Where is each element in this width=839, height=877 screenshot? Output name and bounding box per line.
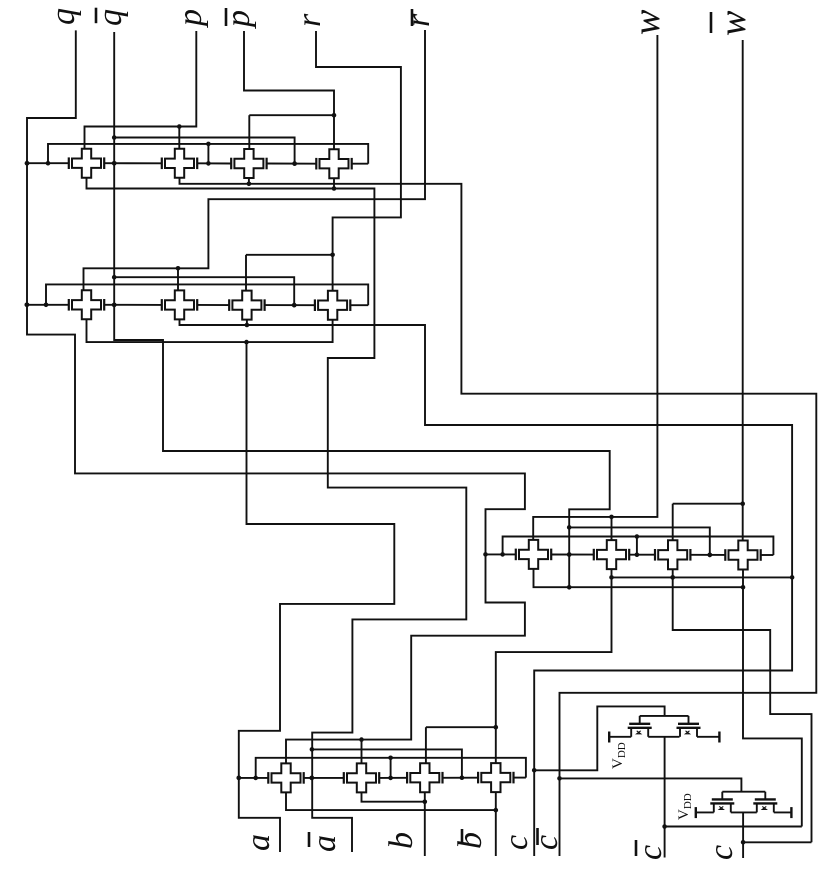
transmission gate D3	[407, 763, 442, 792]
transmission gate C1	[516, 540, 551, 569]
ground bar inverter1	[697, 732, 719, 743]
power VDD bar inverter1	[609, 732, 631, 743]
svg-text:b: b	[452, 832, 489, 849]
label output w	[626, 9, 668, 35]
wire net q	[25, 30, 525, 763]
wire inverter2 input link (c-bar)	[560, 778, 742, 791]
wire rail2 row B	[46, 284, 368, 305]
svg-text:b: b	[383, 832, 420, 849]
transmission gate D1	[268, 763, 303, 792]
svg-text:a: a	[240, 834, 277, 851]
wire net p (rail1 row A)	[85, 31, 197, 149]
transistor Q3 (PMOS inverter2)	[710, 799, 734, 812]
wire D3-D4	[443, 775, 479, 780]
wire A1 left gate lead	[25, 161, 69, 166]
wire inverter1 output (c-bar)	[648, 737, 679, 858]
wire C4 bottom staircase	[743, 570, 802, 827]
wire C1 C4 bottoms rail	[534, 569, 746, 590]
wire inverter1 input link (c)	[534, 706, 664, 770]
label output w-bar	[711, 10, 754, 36]
wire C2 C3 bottoms rail	[612, 569, 793, 580]
transistor Q4 (NMOS inverter2)	[753, 799, 777, 812]
label input p-bar	[220, 8, 257, 29]
wire rail2 row A	[48, 142, 368, 166]
wire a-bar rail row D	[312, 749, 462, 777]
svg-text:q: q	[92, 9, 129, 26]
svg-text:q: q	[45, 8, 82, 25]
label input b	[383, 832, 420, 849]
wire D2-D3	[379, 777, 407, 779]
wire c output rail	[743, 841, 811, 843]
wire net q-bar	[112, 32, 610, 587]
wire A4 right gate lead	[352, 163, 369, 165]
wire net w-bar (C3 C4 tops)	[673, 40, 745, 540]
wire B1 left gate lead	[25, 303, 69, 308]
label input r	[291, 13, 328, 27]
transmission gate C4	[725, 541, 760, 570]
wire q-bar rail row A	[114, 138, 297, 166]
wire B2-B3	[197, 304, 229, 306]
wire q-bar rail row C	[569, 527, 712, 557]
wire net a	[237, 342, 395, 852]
wire rail2 row D	[256, 756, 526, 781]
label input c-bar	[528, 828, 565, 850]
svg-text:c: c	[528, 835, 565, 850]
transmission gate B1	[69, 290, 104, 319]
transmission gate B4	[315, 291, 350, 320]
wire C1 left gate lead	[483, 552, 516, 557]
wire D4 right gate lead	[514, 777, 526, 779]
svg-text:r: r	[400, 13, 437, 27]
label input a-bar	[306, 832, 343, 852]
transmission gate D2	[344, 763, 379, 792]
wire D1-D2 (a-bar tap)	[304, 776, 344, 781]
power VDD bar inverter2	[696, 807, 714, 818]
label input p	[172, 9, 209, 28]
transistor Q1 (PMOS inverter1)	[628, 724, 652, 737]
wire B1 B4 bottoms rail	[87, 319, 333, 344]
label VDD inverter2	[676, 793, 694, 820]
wire C3-C4	[690, 553, 725, 558]
wire inverter2 output (c)	[731, 812, 757, 858]
transmission gate C2	[594, 540, 629, 569]
transmission gate A1	[69, 149, 104, 178]
wire net a-bar (A1 A4 bottoms staircase)	[87, 178, 467, 852]
wire D1 left gate lead	[237, 776, 269, 781]
svg-text:c: c	[632, 845, 669, 860]
svg-text:w: w	[712, 10, 754, 36]
svg-text:p: p	[172, 9, 209, 28]
wire rail2 row C	[503, 534, 774, 557]
ground bar inverter2	[774, 807, 792, 818]
label input q	[45, 8, 82, 25]
label input c	[498, 835, 535, 850]
label input r-bar	[400, 9, 437, 27]
wire B4 right gate lead	[350, 304, 368, 306]
wire net p-bar (A3 A4 tops)	[244, 31, 336, 149]
wire C1-C2 (q-bar tap)	[551, 552, 594, 557]
wire A1-A2 (q-bar tap)	[104, 161, 162, 166]
wire inverter2 gate rail	[722, 792, 765, 800]
wire inverter1 gate rail	[640, 716, 689, 724]
transistor Q2 (NMOS inverter1)	[677, 724, 701, 737]
transmission gate A2	[162, 149, 197, 178]
wire net b (D2 D3 bottoms)	[362, 792, 428, 856]
label input b-bar	[452, 829, 489, 849]
wire B3-B4	[265, 303, 315, 308]
wire c to D3 D4 tops	[426, 575, 614, 763]
transmission gate D4	[478, 763, 513, 792]
wire C3 bottom staircase	[670, 569, 811, 842]
label VDD inverter1	[610, 742, 628, 769]
wire net b-bar (D1 D4 bottoms)	[286, 792, 498, 856]
label node c-bar (inverter1 out)	[632, 840, 669, 860]
label input a	[240, 834, 277, 851]
label node c (inverter2 out)	[703, 845, 740, 860]
wire A2-A3	[197, 162, 231, 164]
label input q-bar	[92, 8, 129, 26]
transmission gate C3	[655, 540, 690, 569]
wire net c (B2 B3 bottoms staircase)	[180, 319, 795, 856]
wire net r-bar (rail1 row B)	[84, 30, 426, 290]
wire c-bar output rail	[665, 826, 802, 828]
wire C4 right gate lead	[761, 554, 774, 556]
wire C2-C3	[629, 554, 655, 556]
svg-text:c: c	[703, 845, 740, 860]
wire q-bar rail row B	[114, 277, 296, 307]
svg-text:w: w	[626, 9, 668, 35]
svg-text:a: a	[306, 835, 343, 852]
wire net c-bar (A2 A3 bottoms staircase)	[180, 178, 817, 856]
transmission gate A3	[231, 149, 266, 178]
transmission gate B2	[162, 290, 197, 319]
transmission gate A4	[316, 149, 351, 178]
svg-text:r: r	[291, 13, 328, 27]
wire B1-B2 (q-bar tap)	[104, 303, 162, 308]
wire A3-A4	[267, 161, 317, 166]
transmission gate B3	[229, 291, 264, 320]
wire net w (rail1 row C)	[533, 35, 657, 540]
wire net r (B3 B4 tops)	[246, 31, 401, 291]
